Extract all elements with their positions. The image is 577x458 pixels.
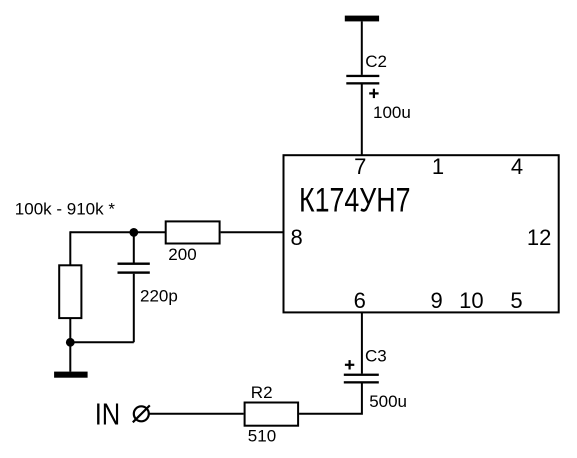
power rail bar (345, 16, 379, 22)
wire 220p to junction (69, 341, 134, 343)
resistor R2 (245, 403, 299, 426)
svg-text:7: 7 (354, 154, 366, 179)
resistor 100k-910k vertical (59, 265, 81, 318)
wire input to R2 (150, 413, 244, 415)
svg-text:6: 6 (354, 288, 366, 313)
resistor 200 (166, 221, 220, 243)
svg-text:500u: 500u (369, 392, 407, 411)
svg-text:10: 10 (459, 288, 483, 313)
wire node to resistor 200 (70, 231, 165, 233)
capacitor C2 (346, 75, 379, 85)
wire 220p down (133, 274, 135, 343)
svg-text:5: 5 (510, 288, 522, 313)
svg-text:К174УН7: К174УН7 (299, 182, 411, 220)
wire resistor bottom to junction (69, 318, 71, 342)
wire C3 to pin 6 (361, 312, 363, 373)
svg-text:9: 9 (430, 288, 442, 313)
svg-text:220p: 220p (140, 286, 178, 305)
junction dot bottom (66, 338, 75, 347)
wire junction to ground (69, 342, 71, 371)
svg-text:200: 200 (168, 245, 196, 264)
svg-text:1: 1 (432, 154, 444, 179)
svg-text:R2: R2 (251, 383, 273, 402)
wire down to resistor 100k (69, 231, 71, 265)
input connector circle (133, 405, 150, 422)
svg-text:8: 8 (291, 225, 303, 250)
wire R2 to C3 (299, 384, 362, 414)
wire junction to capacitor 220p (133, 232, 135, 262)
wire C2 to pin 7 (361, 84, 363, 155)
wire power bar to C2 (361, 21, 363, 75)
C2 polarity plus (369, 89, 378, 98)
capacitor C3 (344, 374, 379, 384)
svg-text:100u: 100u (373, 103, 411, 122)
svg-text:C3: C3 (365, 347, 387, 366)
svg-text:4: 4 (511, 154, 523, 179)
svg-text:510: 510 (248, 426, 276, 445)
C3 polarity plus (345, 360, 354, 369)
svg-text:12: 12 (527, 225, 551, 250)
svg-text:IN: IN (95, 397, 121, 432)
junction dot top (129, 228, 138, 237)
ground bar (54, 372, 88, 378)
wire resistor 200 to pin 8 (221, 231, 284, 233)
svg-text:C2: C2 (365, 52, 387, 71)
capacitor 220p (118, 263, 150, 274)
IC U1 box К174УН7 (284, 155, 559, 312)
svg-text:100k - 910k *: 100k - 910k * (15, 200, 116, 219)
